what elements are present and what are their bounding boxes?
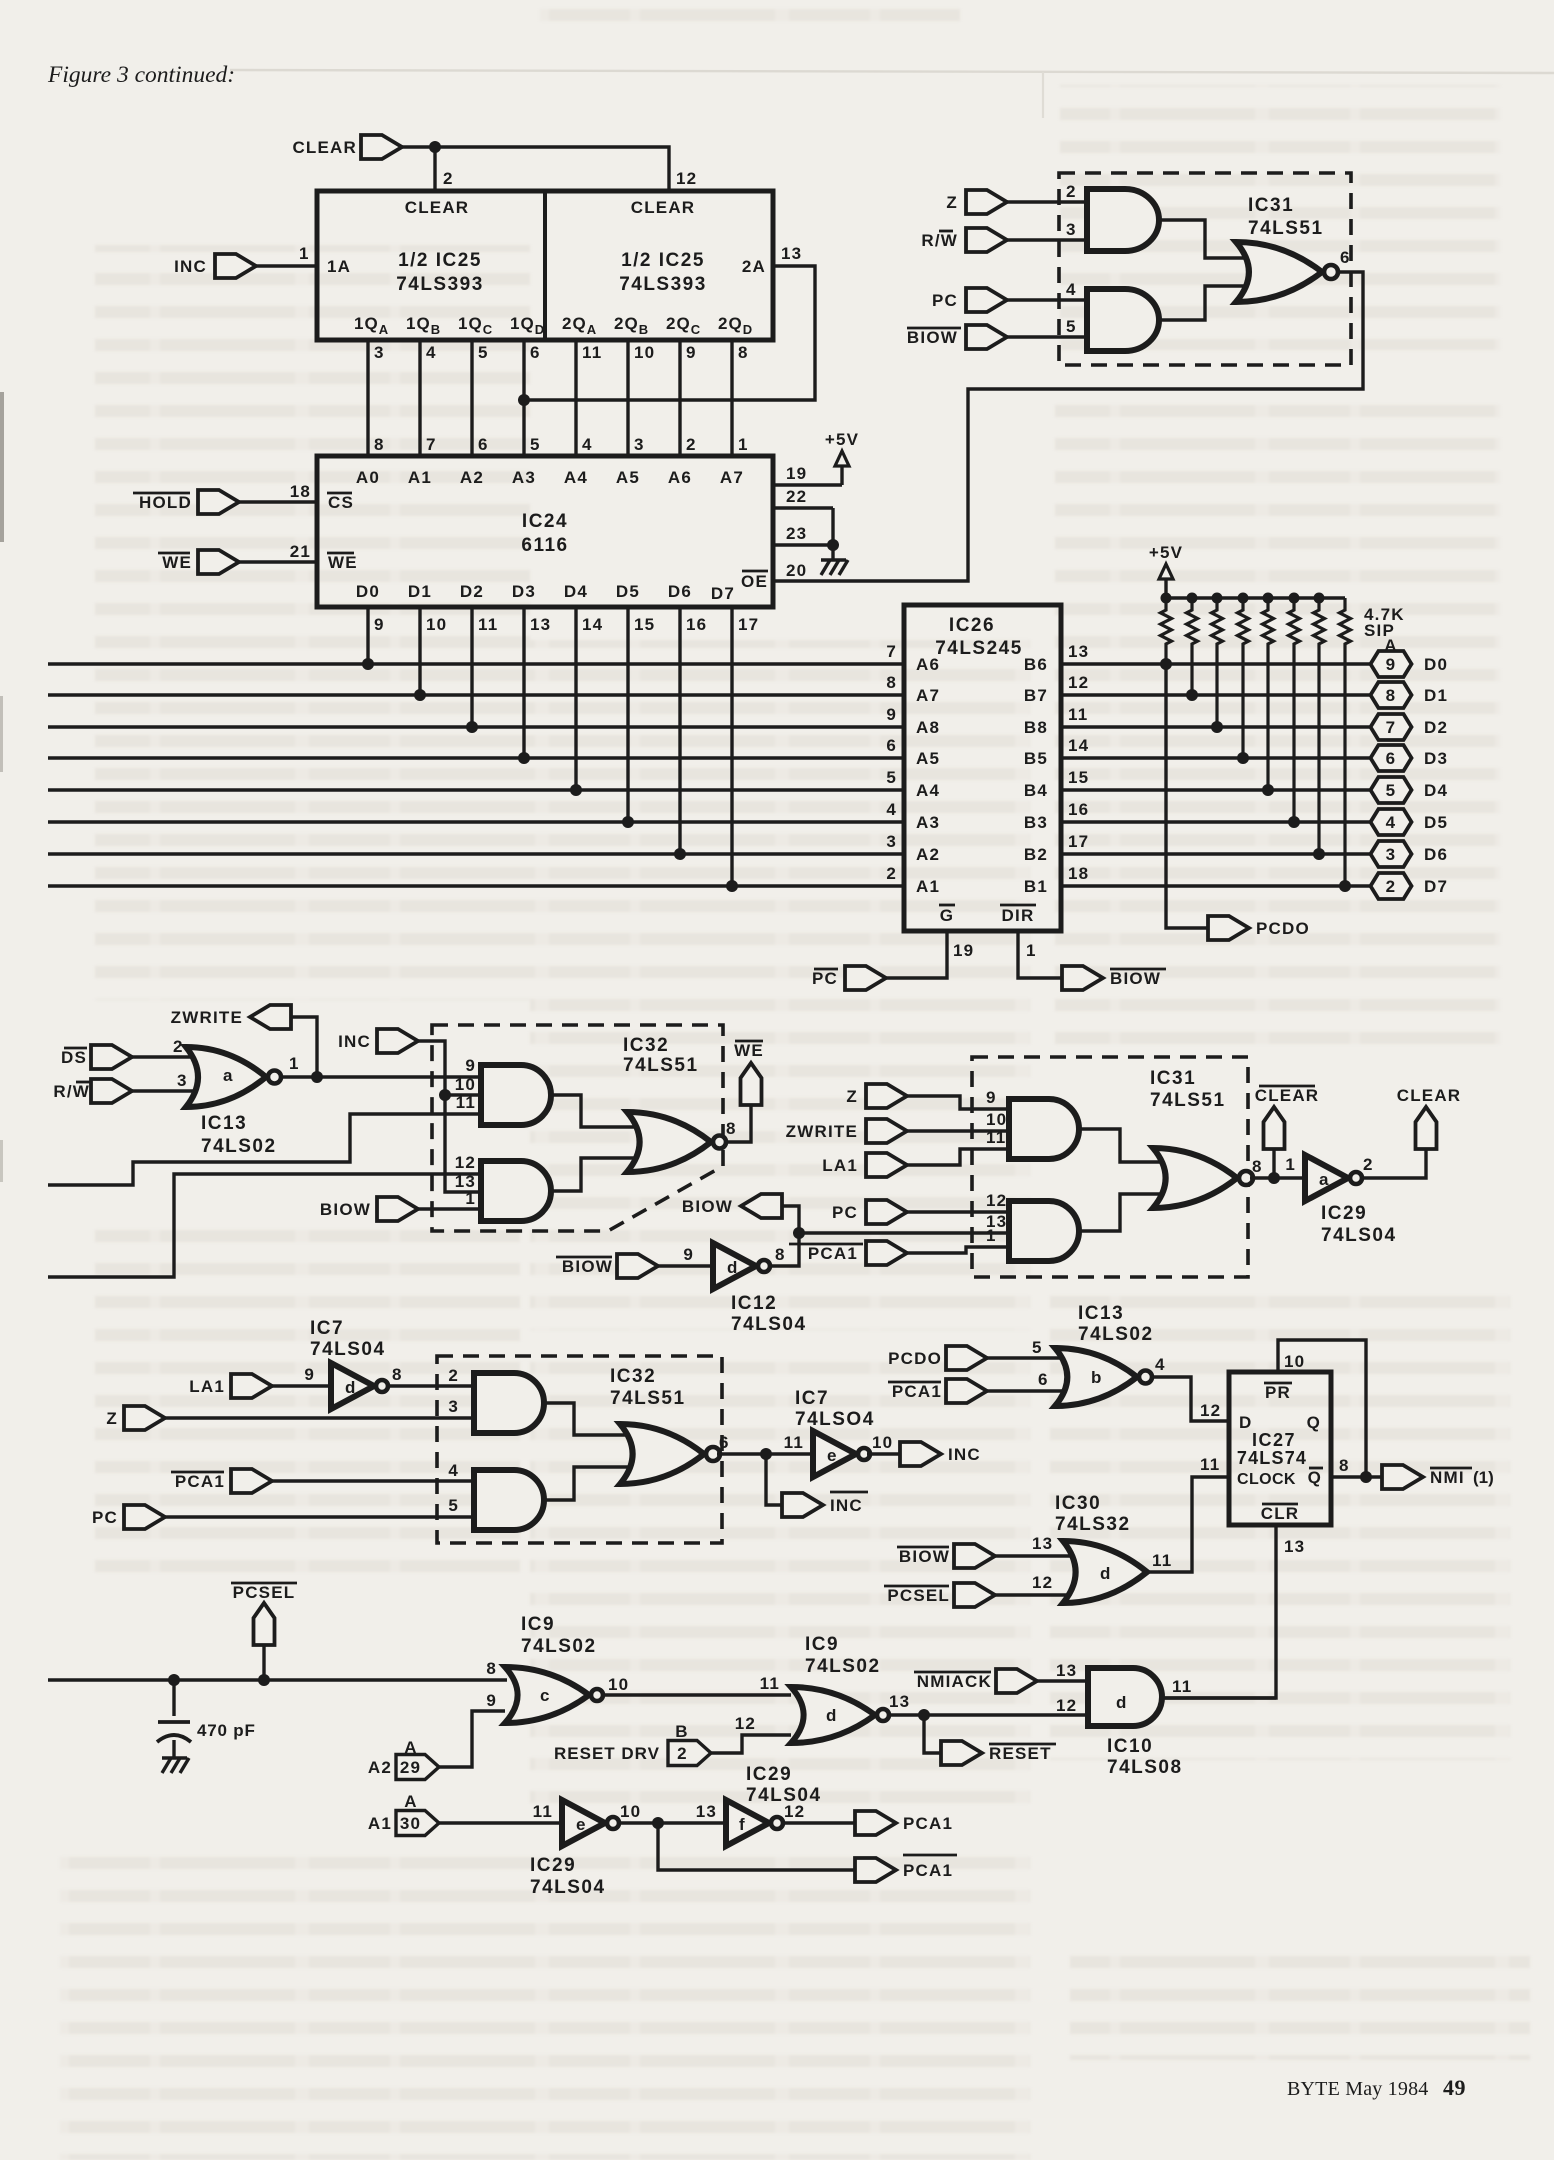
svg-text:11: 11: [784, 1433, 804, 1452]
svg-text:PCA1: PCA1: [892, 1382, 942, 1401]
svg-text:13: 13: [1032, 1534, 1053, 1553]
svg-text:74LS393: 74LS393: [396, 274, 484, 295]
svg-text:7: 7: [886, 642, 897, 661]
svg-text:8: 8: [1339, 1456, 1350, 1475]
svg-text:A6: A6: [668, 468, 692, 487]
svg-text:PCA1: PCA1: [903, 1814, 953, 1833]
svg-text:CLEAR: CLEAR: [405, 198, 470, 217]
svg-text:5: 5: [1386, 781, 1397, 800]
svg-text:74LS393: 74LS393: [619, 274, 707, 295]
svg-text:2: 2: [443, 169, 454, 188]
svg-text:4: 4: [1155, 1355, 1166, 1374]
svg-text:D0: D0: [356, 582, 380, 601]
svg-text:A5: A5: [616, 468, 640, 487]
svg-text:D5: D5: [616, 582, 640, 601]
svg-text:e: e: [576, 1815, 587, 1834]
svg-text:INC: INC: [174, 257, 207, 276]
svg-text:74LS51: 74LS51: [623, 1055, 699, 1076]
svg-text:PCA1: PCA1: [808, 1244, 858, 1263]
svg-text:d: d: [1116, 1693, 1128, 1712]
svg-text:d: d: [727, 1258, 739, 1277]
svg-text:B4: B4: [1024, 781, 1048, 800]
svg-text:+5V: +5V: [1149, 543, 1183, 562]
svg-text:4: 4: [448, 1461, 459, 1480]
svg-text:13: 13: [530, 615, 551, 634]
svg-text:12: 12: [1056, 1696, 1077, 1715]
svg-text:2: 2: [1066, 182, 1077, 201]
svg-text:IC27: IC27: [1252, 1430, 1296, 1450]
svg-text:3: 3: [374, 343, 385, 362]
svg-text:a: a: [223, 1066, 234, 1085]
svg-text:A3: A3: [512, 468, 536, 487]
svg-text:Q: Q: [1308, 1468, 1322, 1487]
svg-text:8: 8: [886, 673, 897, 692]
svg-text:PC: PC: [92, 1508, 118, 1527]
svg-text:IC24: IC24: [522, 511, 568, 532]
svg-text:49: 49: [1443, 2075, 1466, 2100]
svg-text:12: 12: [986, 1191, 1007, 1210]
svg-text:IC29: IC29: [746, 1764, 792, 1785]
svg-text:74LS08: 74LS08: [1107, 1757, 1183, 1778]
svg-text:11: 11: [1068, 705, 1088, 724]
svg-text:74LS32: 74LS32: [1055, 1514, 1131, 1535]
svg-text:1/2 IC25: 1/2 IC25: [621, 250, 705, 271]
svg-text:5: 5: [1066, 317, 1077, 336]
svg-text:A1: A1: [916, 877, 940, 896]
svg-text:10: 10: [1284, 1352, 1305, 1371]
svg-text:74LS02: 74LS02: [521, 1636, 597, 1657]
svg-text:23: 23: [786, 524, 807, 543]
svg-text:12: 12: [784, 1802, 805, 1821]
svg-text:IC30: IC30: [1055, 1493, 1101, 1514]
svg-text:B3: B3: [1024, 813, 1048, 832]
svg-text:IC7: IC7: [795, 1388, 829, 1409]
svg-text:9: 9: [886, 705, 897, 724]
svg-text:BYTE May 1984: BYTE May 1984: [1287, 2078, 1428, 2100]
svg-text:A4: A4: [564, 468, 588, 487]
svg-text:c: c: [540, 1686, 551, 1705]
svg-text:D3: D3: [1424, 749, 1448, 768]
svg-text:Z: Z: [946, 193, 958, 212]
svg-text:R/W: R/W: [921, 231, 958, 250]
svg-text:9: 9: [486, 1691, 497, 1710]
svg-text:CLOCK: CLOCK: [1237, 1471, 1296, 1488]
svg-text:74LS51: 74LS51: [610, 1388, 686, 1409]
svg-text:OE: OE: [741, 572, 768, 591]
svg-text:74LS51: 74LS51: [1150, 1090, 1226, 1111]
svg-text:ZWRITE: ZWRITE: [786, 1122, 858, 1141]
svg-text:6: 6: [530, 343, 541, 362]
svg-text:9: 9: [1386, 655, 1397, 674]
svg-text:CLEAR: CLEAR: [1255, 1086, 1320, 1105]
svg-text:4: 4: [886, 800, 897, 819]
svg-text:a: a: [1319, 1170, 1330, 1189]
svg-text:IC9: IC9: [805, 1634, 839, 1655]
svg-text:BIOW: BIOW: [682, 1197, 733, 1216]
svg-text:9: 9: [986, 1088, 997, 1107]
svg-text:BIOW: BIOW: [320, 1200, 371, 1219]
svg-text:D7: D7: [711, 584, 735, 603]
svg-text:4: 4: [426, 343, 437, 362]
svg-text:4: 4: [582, 435, 593, 454]
svg-text:5: 5: [886, 768, 897, 787]
svg-text:B6: B6: [1024, 655, 1048, 674]
svg-text:19: 19: [786, 464, 807, 483]
svg-text:IC31: IC31: [1150, 1068, 1196, 1089]
svg-text:3: 3: [886, 832, 897, 851]
svg-text:HOLD: HOLD: [139, 493, 192, 512]
svg-text:D6: D6: [668, 582, 692, 601]
svg-text:1/2 IC25: 1/2 IC25: [398, 250, 482, 271]
svg-text:D: D: [1239, 1413, 1252, 1432]
svg-text:10: 10: [986, 1110, 1007, 1129]
svg-text:A4: A4: [916, 781, 940, 800]
svg-text:8: 8: [775, 1245, 786, 1264]
svg-text:11: 11: [533, 1802, 553, 1821]
svg-text:74LS04: 74LS04: [731, 1314, 807, 1335]
svg-text:18: 18: [1068, 864, 1089, 883]
svg-text:10: 10: [426, 615, 447, 634]
svg-text:18: 18: [290, 482, 311, 501]
svg-text:9: 9: [465, 1056, 476, 1075]
svg-text:16: 16: [686, 615, 707, 634]
svg-text:d: d: [1100, 1564, 1112, 1583]
svg-text:B2: B2: [1024, 845, 1048, 864]
svg-text:BIOW: BIOW: [899, 1547, 950, 1566]
svg-text:DIR: DIR: [1002, 906, 1035, 925]
svg-text:3: 3: [1066, 220, 1077, 239]
svg-text:D0: D0: [1424, 655, 1448, 674]
svg-text:3: 3: [634, 435, 645, 454]
svg-text:D4: D4: [564, 582, 588, 601]
svg-text:D2: D2: [1424, 718, 1448, 737]
svg-text:IC31: IC31: [1248, 195, 1294, 216]
svg-text:3: 3: [177, 1071, 188, 1090]
svg-text:PCA1: PCA1: [175, 1472, 225, 1491]
svg-text:2: 2: [886, 864, 897, 883]
svg-text:Q: Q: [1307, 1413, 1321, 1432]
svg-text:8: 8: [486, 1659, 497, 1678]
svg-text:11: 11: [1172, 1677, 1192, 1696]
svg-text:CLEAR: CLEAR: [1397, 1086, 1462, 1105]
svg-text:2: 2: [1363, 1155, 1374, 1174]
svg-text:WE: WE: [734, 1041, 764, 1060]
svg-text:470 pF: 470 pF: [197, 1721, 256, 1740]
svg-text:12: 12: [1200, 1401, 1221, 1420]
svg-text:15: 15: [634, 615, 655, 634]
svg-text:e: e: [827, 1446, 838, 1465]
svg-text:3: 3: [448, 1397, 459, 1416]
svg-text:10: 10: [634, 343, 655, 362]
svg-text:CLR: CLR: [1261, 1504, 1300, 1523]
svg-text:PCDO: PCDO: [888, 1349, 942, 1368]
svg-text:6: 6: [1340, 248, 1351, 267]
svg-text:NMIACK: NMIACK: [917, 1672, 992, 1691]
svg-text:6: 6: [1386, 749, 1397, 768]
svg-text:5: 5: [1032, 1338, 1043, 1357]
svg-text:NMI: NMI: [1430, 1468, 1465, 1487]
svg-text:G: G: [940, 906, 954, 925]
svg-text:D5: D5: [1424, 813, 1448, 832]
svg-text:2: 2: [677, 1744, 688, 1763]
svg-text:D6: D6: [1424, 845, 1448, 864]
svg-text:Z: Z: [106, 1409, 118, 1428]
svg-text:B1: B1: [1024, 877, 1048, 896]
svg-text:1: 1: [986, 1226, 997, 1245]
svg-text:d: d: [345, 1378, 357, 1397]
svg-text:4: 4: [1386, 813, 1397, 832]
svg-text:IC12: IC12: [731, 1293, 777, 1314]
svg-text:DS: DS: [61, 1048, 87, 1067]
svg-text:74LS02: 74LS02: [805, 1656, 881, 1677]
svg-text:ZWRITE: ZWRITE: [171, 1008, 243, 1027]
svg-text:13: 13: [781, 244, 802, 263]
svg-text:+5V: +5V: [825, 430, 859, 449]
svg-text:IC26: IC26: [949, 615, 995, 636]
svg-text:29: 29: [400, 1758, 421, 1777]
svg-text:CLEAR: CLEAR: [631, 198, 696, 217]
svg-text:1: 1: [289, 1054, 300, 1073]
svg-text:5: 5: [530, 435, 541, 454]
svg-text:PCSEL: PCSEL: [887, 1586, 950, 1605]
svg-text:7: 7: [1386, 718, 1397, 737]
svg-text:A6: A6: [916, 655, 940, 674]
svg-text:IC13: IC13: [1078, 1303, 1124, 1324]
svg-text:8: 8: [392, 1365, 403, 1384]
svg-text:74LS04: 74LS04: [310, 1339, 386, 1360]
svg-text:A5: A5: [916, 749, 940, 768]
svg-text:IC13: IC13: [201, 1113, 247, 1134]
svg-text:74LS04: 74LS04: [1321, 1225, 1397, 1246]
svg-text:13: 13: [1284, 1537, 1305, 1556]
svg-text:WE: WE: [328, 553, 358, 572]
svg-text:12: 12: [735, 1714, 756, 1733]
svg-text:9: 9: [683, 1245, 694, 1264]
svg-text:A7: A7: [916, 686, 940, 705]
svg-text:Figure 3 continued:: Figure 3 continued:: [47, 62, 235, 88]
svg-text:6: 6: [886, 736, 897, 755]
svg-text:4: 4: [1066, 280, 1077, 299]
svg-text:22: 22: [786, 487, 807, 506]
svg-text:1A: 1A: [327, 257, 351, 276]
svg-text:74LS02: 74LS02: [1078, 1324, 1154, 1345]
svg-text:INC: INC: [338, 1032, 371, 1051]
svg-text:1: 1: [1026, 941, 1037, 960]
svg-text:5: 5: [478, 343, 489, 362]
svg-text:19: 19: [953, 941, 974, 960]
svg-text:74LS74: 74LS74: [1237, 1448, 1307, 1468]
svg-text:6: 6: [719, 1433, 730, 1452]
svg-text:74LS245: 74LS245: [935, 638, 1023, 659]
svg-text:11: 11: [760, 1674, 780, 1693]
svg-text:74LS51: 74LS51: [1248, 218, 1324, 239]
svg-text:14: 14: [1068, 736, 1089, 755]
svg-text:LA1: LA1: [189, 1377, 225, 1396]
svg-text:74LS02: 74LS02: [201, 1136, 277, 1157]
svg-text:6: 6: [478, 435, 489, 454]
svg-text:A8: A8: [916, 718, 940, 737]
svg-text:5: 5: [448, 1496, 459, 1515]
svg-text:D1: D1: [408, 582, 432, 601]
svg-text:8: 8: [1386, 686, 1397, 705]
svg-text:11: 11: [1152, 1551, 1172, 1570]
svg-text:15: 15: [1068, 768, 1089, 787]
svg-text:Z: Z: [846, 1087, 858, 1106]
svg-text:2: 2: [686, 435, 697, 454]
svg-text:PCA1: PCA1: [903, 1861, 953, 1880]
svg-text:16: 16: [1068, 800, 1089, 819]
svg-text:1: 1: [738, 435, 749, 454]
svg-text:14: 14: [582, 615, 603, 634]
svg-text:1: 1: [465, 1189, 476, 1208]
svg-text:PCDO: PCDO: [1256, 919, 1310, 938]
svg-text:9: 9: [686, 343, 697, 362]
svg-text:12: 12: [1068, 673, 1089, 692]
svg-text:B5: B5: [1024, 749, 1048, 768]
svg-text:IC29: IC29: [1321, 1203, 1367, 1224]
svg-text:BIOW: BIOW: [1110, 969, 1161, 988]
svg-text:A1: A1: [408, 468, 432, 487]
svg-text:R/W: R/W: [53, 1082, 90, 1101]
svg-text:21: 21: [290, 542, 311, 561]
svg-text:IC29: IC29: [530, 1855, 576, 1876]
svg-text:7: 7: [426, 435, 437, 454]
svg-text:D4: D4: [1424, 781, 1448, 800]
svg-text:D7: D7: [1424, 877, 1448, 896]
svg-text:IC10: IC10: [1107, 1736, 1153, 1757]
svg-text:74LS04: 74LS04: [530, 1877, 606, 1898]
svg-text:A2: A2: [368, 1758, 392, 1777]
svg-text:INC: INC: [948, 1445, 981, 1464]
svg-text:D1: D1: [1424, 686, 1448, 705]
svg-text:3: 3: [1386, 845, 1397, 864]
svg-text:A2: A2: [916, 845, 940, 864]
svg-text:6116: 6116: [521, 535, 568, 556]
svg-text:10: 10: [455, 1075, 476, 1094]
svg-text:PC: PC: [812, 969, 838, 988]
svg-text:17: 17: [1068, 832, 1089, 851]
svg-text:30: 30: [400, 1814, 421, 1833]
svg-text:20: 20: [786, 561, 807, 580]
svg-text:12: 12: [1032, 1573, 1053, 1592]
svg-text:A1: A1: [368, 1814, 392, 1833]
svg-text:B7: B7: [1024, 686, 1048, 705]
svg-text:12: 12: [676, 169, 697, 188]
svg-text:8: 8: [1252, 1157, 1263, 1176]
svg-text:CLEAR: CLEAR: [292, 138, 357, 157]
svg-text:10: 10: [620, 1802, 641, 1821]
svg-text:17: 17: [738, 615, 759, 634]
svg-text:RESET DRV: RESET DRV: [554, 1744, 660, 1763]
svg-text:D2: D2: [460, 582, 484, 601]
svg-text:1: 1: [299, 244, 310, 263]
svg-text:8: 8: [374, 435, 385, 454]
svg-text:2: 2: [1386, 877, 1397, 896]
svg-text:f: f: [739, 1815, 746, 1834]
svg-text:13: 13: [696, 1802, 717, 1821]
svg-text:IC9: IC9: [521, 1614, 555, 1635]
svg-text:WE: WE: [162, 553, 192, 572]
svg-text:1: 1: [1285, 1155, 1296, 1174]
svg-text:11: 11: [582, 343, 602, 362]
svg-text:(1): (1): [1473, 1468, 1494, 1487]
svg-text:11: 11: [986, 1128, 1006, 1147]
svg-text:74LSO4: 74LSO4: [795, 1409, 875, 1430]
svg-text:8: 8: [726, 1119, 737, 1138]
svg-text:13: 13: [889, 1692, 910, 1711]
svg-text:CS: CS: [328, 493, 354, 512]
svg-text:d: d: [826, 1706, 838, 1725]
svg-text:8: 8: [738, 343, 749, 362]
svg-text:IC32: IC32: [623, 1035, 669, 1056]
svg-text:2: 2: [448, 1366, 459, 1385]
svg-text:PCSEL: PCSEL: [233, 1583, 296, 1602]
svg-text:A: A: [404, 1792, 417, 1811]
svg-text:RESET: RESET: [989, 1744, 1052, 1763]
svg-text:A3: A3: [916, 813, 940, 832]
svg-text:PC: PC: [932, 291, 958, 310]
svg-text:2A: 2A: [742, 257, 766, 276]
svg-text:LA1: LA1: [822, 1156, 858, 1175]
svg-text:6: 6: [1038, 1370, 1049, 1389]
svg-text:A0: A0: [356, 468, 380, 487]
svg-text:B8: B8: [1024, 718, 1048, 737]
svg-text:9: 9: [304, 1365, 315, 1384]
svg-text:10: 10: [872, 1433, 893, 1452]
svg-text:BIOW: BIOW: [562, 1257, 613, 1276]
svg-text:PC: PC: [832, 1203, 858, 1222]
svg-text:13: 13: [1056, 1661, 1077, 1680]
svg-text:11: 11: [456, 1093, 476, 1112]
svg-text:b: b: [1091, 1368, 1103, 1387]
svg-text:9: 9: [374, 615, 385, 634]
svg-text:A2: A2: [460, 468, 484, 487]
svg-text:IC32: IC32: [610, 1366, 656, 1387]
svg-text:BIOW: BIOW: [907, 328, 958, 347]
svg-text:11: 11: [478, 615, 498, 634]
svg-text:D3: D3: [512, 582, 536, 601]
svg-text:B: B: [675, 1722, 688, 1741]
svg-text:11: 11: [1200, 1455, 1220, 1474]
svg-text:12: 12: [455, 1153, 476, 1172]
svg-text:A7: A7: [720, 468, 744, 487]
svg-text:INC: INC: [830, 1496, 863, 1515]
svg-text:13: 13: [1068, 642, 1089, 661]
svg-text:10: 10: [608, 1675, 629, 1694]
svg-text:IC7: IC7: [310, 1318, 344, 1339]
svg-text:PR: PR: [1265, 1383, 1291, 1402]
